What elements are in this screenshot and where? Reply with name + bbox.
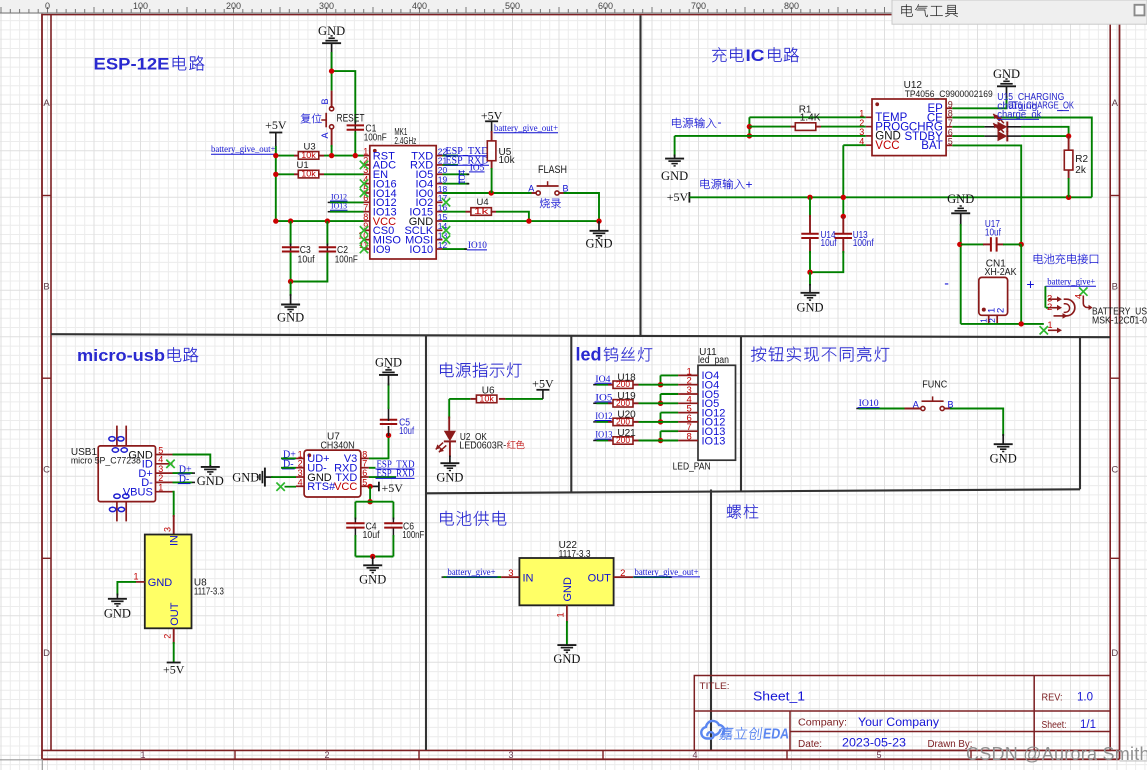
svg-text:LED_PAN: LED_PAN	[673, 461, 711, 472]
svg-text:D: D	[43, 648, 50, 659]
svg-text:4: 4	[692, 750, 697, 760]
svg-text:100nf: 100nf	[853, 238, 874, 249]
svg-text:charge_ok: charge_ok	[997, 109, 1041, 120]
svg-text:GND: GND	[359, 573, 386, 587]
svg-text:GND: GND	[148, 577, 173, 589]
svg-text:Company:: Company:	[798, 718, 847, 729]
svg-text:500: 500	[505, 1, 520, 11]
svg-text:C: C	[1111, 465, 1118, 476]
svg-text:8: 8	[687, 432, 692, 443]
svg-text:2.4GHz: 2.4GHz	[394, 136, 416, 147]
svg-text:BAT: BAT	[921, 140, 943, 152]
svg-text:micro-usb: micro-usb	[77, 346, 165, 365]
svg-text:GND: GND	[947, 192, 974, 206]
svg-text:800: 800	[784, 1, 799, 11]
svg-text:B: B	[43, 281, 49, 292]
svg-text:GND: GND	[585, 237, 612, 251]
svg-text:1: 1	[140, 750, 145, 760]
svg-text:5: 5	[876, 750, 881, 760]
svg-text:0: 0	[45, 1, 50, 11]
svg-text:IO13: IO13	[331, 201, 348, 211]
svg-text:MSK-12C01-0: MSK-12C01-0	[1092, 316, 1147, 327]
svg-text:FUNC: FUNC	[922, 380, 947, 391]
svg-text:IO4: IO4	[595, 374, 611, 384]
svg-text:GND: GND	[562, 577, 574, 602]
svg-text:+: +	[1026, 276, 1034, 292]
svg-text:TITLE:: TITLE:	[700, 681, 730, 692]
svg-text:100nF: 100nF	[335, 254, 358, 265]
svg-text:1k: 1k	[474, 207, 490, 216]
svg-text:GND: GND	[375, 355, 402, 369]
svg-text:+5V: +5V	[163, 663, 185, 677]
svg-text:1: 1	[556, 612, 567, 617]
svg-text:OUT: OUT	[588, 572, 612, 584]
svg-text:10k: 10k	[499, 155, 516, 166]
svg-text:OUT: OUT	[169, 602, 181, 626]
svg-text:led_pan: led_pan	[698, 355, 729, 366]
svg-text:GND: GND	[436, 471, 463, 485]
svg-text:10uf: 10uf	[298, 254, 315, 265]
svg-text:+5V: +5V	[667, 190, 689, 204]
svg-text:+5V: +5V	[481, 108, 503, 122]
svg-text:VCC: VCC	[875, 140, 899, 152]
svg-text:3: 3	[508, 568, 513, 579]
svg-text:ESP-12E: ESP-12E	[94, 55, 170, 74]
svg-text:A: A	[528, 184, 534, 194]
svg-text:1117-3.3: 1117-3.3	[194, 587, 224, 598]
svg-text:GND: GND	[232, 471, 259, 485]
svg-text:2: 2	[620, 568, 625, 579]
svg-text:GND: GND	[104, 607, 131, 621]
svg-text:A: A	[913, 400, 919, 410]
svg-text:U20: U20	[617, 410, 636, 421]
svg-text:1.4K: 1.4K	[800, 112, 821, 123]
svg-text:IN: IN	[523, 572, 534, 584]
svg-text:10k: 10k	[479, 395, 495, 404]
svg-text:2k: 2k	[1075, 165, 1087, 176]
svg-text:XH-2AK: XH-2AK	[985, 267, 1017, 278]
svg-text:3: 3	[508, 750, 513, 760]
svg-text:REV:: REV:	[1042, 692, 1063, 703]
svg-text:U18: U18	[617, 372, 636, 383]
svg-text:IC: IC	[746, 46, 765, 65]
svg-text:U3: U3	[304, 142, 316, 153]
svg-text:3: 3	[163, 527, 173, 532]
svg-text:FLASH: FLASH	[538, 164, 567, 176]
svg-text:2: 2	[995, 308, 1006, 313]
svg-text:2: 2	[324, 750, 329, 760]
svg-text:Sheet:: Sheet:	[1042, 720, 1067, 731]
svg-text:700: 700	[691, 1, 706, 11]
svg-text:Sheet_1: Sheet_1	[753, 689, 805, 704]
svg-text:100nF: 100nF	[402, 530, 424, 541]
svg-text:1.0: 1.0	[1077, 691, 1093, 703]
svg-text:GND: GND	[993, 67, 1020, 81]
svg-text:Your Company: Your Company	[858, 715, 939, 729]
svg-text:10uf: 10uf	[363, 530, 380, 541]
svg-text:200: 200	[226, 1, 241, 11]
svg-text:400: 400	[412, 1, 427, 11]
svg-text:+: +	[746, 177, 753, 191]
svg-text:RTS#: RTS#	[307, 481, 336, 493]
svg-text:TP4056_C9900002169: TP4056_C9900002169	[905, 89, 993, 99]
svg-text:100nF: 100nF	[364, 133, 387, 144]
svg-text:A: A	[1112, 98, 1119, 109]
svg-text:Date:: Date:	[798, 739, 822, 750]
svg-text:B: B	[1112, 281, 1118, 292]
svg-text:-: -	[718, 115, 722, 129]
svg-text:100: 100	[133, 1, 148, 11]
svg-text:2: 2	[162, 634, 172, 639]
svg-text:4: 4	[298, 477, 303, 487]
svg-text:300: 300	[319, 1, 334, 11]
svg-text:+5V: +5V	[532, 376, 554, 390]
svg-text:U4: U4	[477, 197, 489, 208]
svg-text:IO9: IO9	[373, 244, 391, 256]
svg-text:IO10: IO10	[409, 244, 433, 256]
svg-text:D: D	[1111, 648, 1118, 659]
svg-text:1/1: 1/1	[1080, 719, 1096, 731]
svg-text:A: A	[320, 132, 330, 138]
svg-text:+5V: +5V	[265, 118, 287, 132]
svg-text:1: 1	[133, 572, 138, 582]
svg-text:2023-05-23: 2023-05-23	[842, 736, 906, 750]
svg-text:R2: R2	[1075, 154, 1088, 165]
svg-text:U1: U1	[297, 160, 309, 171]
svg-text:VBUS: VBUS	[123, 487, 153, 499]
svg-text:U19: U19	[617, 391, 636, 402]
svg-text:LED0603R-: LED0603R-	[459, 440, 506, 451]
svg-text:1: 1	[1047, 320, 1052, 330]
svg-text:U21: U21	[617, 428, 636, 439]
svg-text:10uf: 10uf	[399, 426, 414, 437]
svg-text:+5V: +5V	[382, 481, 404, 495]
svg-text:600: 600	[598, 1, 613, 11]
svg-text:10uf: 10uf	[821, 238, 837, 249]
svg-text:EDA: EDA	[762, 727, 791, 743]
svg-text:C: C	[43, 465, 50, 476]
svg-text:B: B	[320, 98, 330, 104]
svg-text:5: 5	[362, 477, 367, 487]
svg-text:GND: GND	[661, 169, 688, 183]
svg-text:IO13: IO13	[702, 435, 726, 447]
svg-text:4: 4	[1074, 294, 1084, 299]
svg-text:GND: GND	[990, 452, 1017, 466]
svg-text:GND: GND	[796, 301, 823, 315]
svg-text:1: 1	[158, 483, 163, 493]
svg-text:VCC: VCC	[334, 481, 357, 493]
svg-text:led: led	[576, 344, 602, 364]
svg-text:2: 2	[987, 318, 997, 323]
svg-text:IO13: IO13	[595, 430, 612, 440]
svg-text:5: 5	[948, 137, 953, 147]
svg-text:-: -	[944, 275, 949, 291]
svg-text:A: A	[43, 98, 50, 109]
svg-text:IO12: IO12	[595, 411, 612, 421]
svg-text:GND: GND	[197, 474, 224, 488]
svg-text:IN: IN	[168, 535, 180, 546]
svg-text:10uf: 10uf	[985, 227, 1001, 238]
svg-text:GND: GND	[553, 652, 580, 666]
svg-text:RESET: RESET	[337, 112, 365, 124]
svg-text:IO5: IO5	[595, 392, 613, 402]
svg-text:GND: GND	[277, 311, 304, 325]
